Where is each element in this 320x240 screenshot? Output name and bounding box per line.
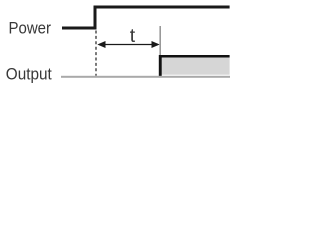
t dimension arrowhead left [97,41,105,48]
wire extension line at output edge [159,26,161,55]
output rising edge [159,55,162,76]
svg-text:t: t [130,25,136,47]
output high state top border [159,55,230,58]
svg-text:Output: Output [6,65,52,83]
t dimension arrowhead right [152,41,160,48]
svg-text:Power: Power [9,20,52,38]
wire output baseline [61,76,230,78]
node t reference dashed line [95,31,97,76]
t dimension arrow shaft [99,44,158,46]
output high state box fill [161,56,230,75]
wire power waveform (low segment, rising edge, high segment) [62,7,230,28]
